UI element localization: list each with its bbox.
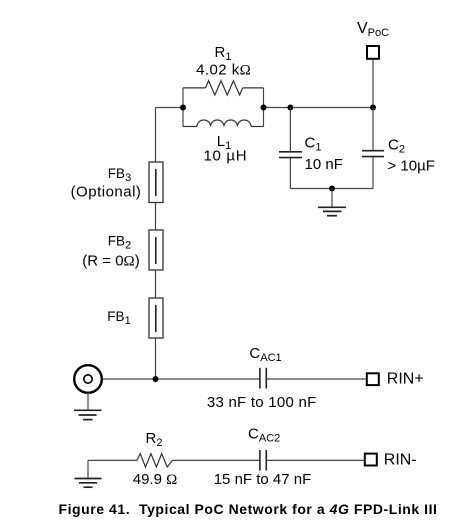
svg-text:R1: R1 <box>215 44 232 63</box>
ferrite bead FB1 <box>107 298 163 338</box>
junction dot left RL node <box>180 105 186 111</box>
wire FB chain vertical top <box>155 108 157 163</box>
svg-text:> 10µF: > 10µF <box>388 158 435 175</box>
svg-text:(R = 0Ω): (R = 0Ω) <box>82 253 139 270</box>
capacitor C1 <box>279 108 343 189</box>
svg-text:FB3: FB3 <box>108 166 131 184</box>
ground (R2 input) <box>75 460 102 487</box>
svg-text:RIN-: RIN- <box>384 452 417 469</box>
capacitor CAC2 <box>214 426 312 489</box>
junction dot C1 top <box>287 105 293 111</box>
svg-text:(Optional): (Optional) <box>71 184 142 201</box>
svg-text:FB2: FB2 <box>108 233 131 251</box>
svg-text:10 nF: 10 nF <box>305 156 343 173</box>
wire CAC1 to RIN+ <box>267 378 366 380</box>
connector (coax jack) <box>74 365 102 393</box>
wire FB1 to RIN+ rail <box>155 338 157 379</box>
wire FB3 to FB2 <box>155 203 157 231</box>
ferrite bead FB2 <box>82 230 163 270</box>
capacitor CAC1 <box>207 345 317 411</box>
wire top rail left segment <box>156 107 184 109</box>
svg-text:10 µH: 10 µH <box>203 148 247 165</box>
wire CAC2 to RIN- <box>267 459 365 461</box>
capacitor C2 <box>362 108 435 189</box>
ground (C1/C2) <box>318 189 346 216</box>
wire C1/C2 bottom rail <box>290 188 373 190</box>
svg-text:C2: C2 <box>388 136 405 155</box>
svg-text:RIN+: RIN+ <box>387 371 424 388</box>
svg-text:49.9 Ω: 49.9 Ω <box>133 471 178 488</box>
junction dot right RL node <box>261 105 267 111</box>
terminal RIN+ (square) <box>367 373 379 385</box>
wire VPoC to top rail <box>372 60 374 108</box>
svg-text:R2: R2 <box>146 430 163 449</box>
resistor R2 <box>133 430 178 488</box>
wire R2 to CAC2 <box>173 459 260 461</box>
svg-text:VPoC: VPoC <box>357 20 389 39</box>
svg-text:C1: C1 <box>305 135 322 154</box>
node VPoC label <box>357 20 389 39</box>
svg-text:CAC1: CAC1 <box>249 345 281 364</box>
wire ground to R2 <box>88 459 137 461</box>
junction dot FB chain / RIN+ rail <box>153 376 159 382</box>
terminal RIN- (square) <box>365 454 377 466</box>
junction dot bottom rail <box>329 186 335 192</box>
ferrite bead FB3 <box>71 162 163 203</box>
wire connector to CAC1 <box>102 378 260 380</box>
junction dot VPoC/C2 <box>370 105 376 111</box>
ground (connector) <box>74 393 102 420</box>
svg-text:4.02 kΩ: 4.02 kΩ <box>196 62 251 79</box>
svg-text:Figure 41. Typical PoC Networ: Figure 41. Typical PoC Network for a 4G … <box>59 501 438 517</box>
wire right edge of RL parallel <box>263 88 265 127</box>
svg-text:FB1: FB1 <box>107 309 130 327</box>
inductor L1 <box>183 120 264 165</box>
wire FB2 to FB1 <box>155 270 157 298</box>
wire top rail right segment <box>264 107 374 109</box>
terminal VPoC (square) <box>367 46 379 59</box>
wire left edge of RL parallel <box>182 88 184 127</box>
resistor R1 <box>183 44 264 95</box>
svg-text:CAC2: CAC2 <box>248 426 280 445</box>
svg-text:33 nF to 100 nF: 33 nF to 100 nF <box>207 394 317 411</box>
svg-text:15 nF to 47 nF: 15 nF to 47 nF <box>214 471 312 488</box>
